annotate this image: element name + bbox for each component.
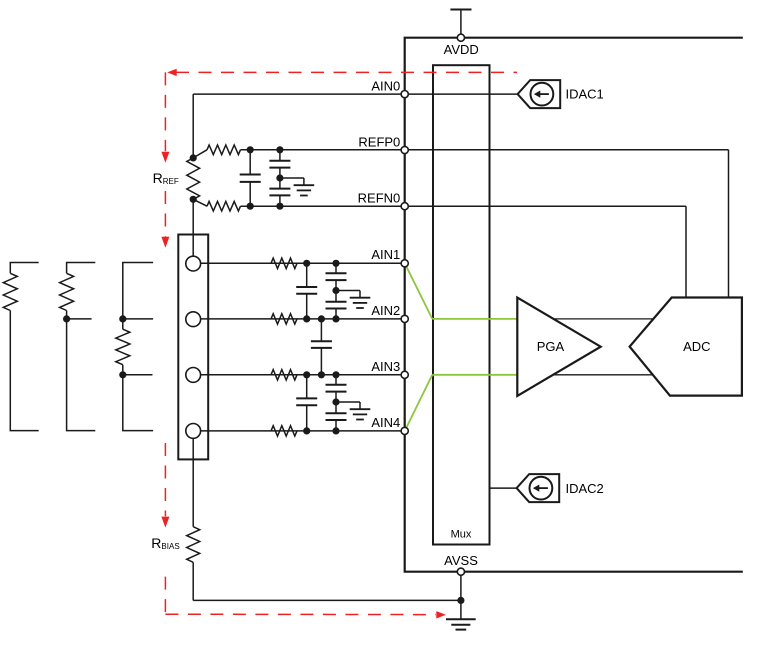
ground ref cm [280, 178, 314, 196]
svg-text:ADC: ADC [683, 339, 710, 354]
junction AIN3 mid [318, 371, 325, 378]
capacitor CCM_A3 [326, 375, 347, 392]
pin REFN0 [401, 203, 408, 210]
junction AVSS [457, 597, 464, 604]
current path bottom [165, 611, 445, 618]
capacitor CCM_A1 [326, 263, 347, 280]
label IDAC2 [566, 481, 604, 496]
label ADC [683, 339, 710, 354]
junction a12 cm mid [332, 287, 339, 294]
junction AIN2 diff [303, 315, 310, 322]
svg-text:PGA: PGA [537, 339, 565, 354]
junction 4-wire tap bottom [119, 371, 126, 378]
svg-text:AIN0: AIN0 [371, 79, 400, 94]
terminal 4 [186, 424, 201, 439]
svg-text:AIN1: AIN1 [371, 247, 400, 262]
junction RREF top [190, 154, 197, 161]
junction AIN2 cm [332, 315, 339, 322]
label REFN0 [358, 190, 401, 205]
resistor AIN1 filter [271, 258, 297, 268]
sensor RTD 4-wire [116, 263, 153, 431]
label IDAC1 [566, 87, 604, 102]
pin AIN0 [401, 91, 408, 98]
current source IDAC2 [517, 474, 560, 502]
label Mux [451, 528, 472, 540]
junction AIN2 mid [318, 315, 325, 322]
pin AVDD [457, 34, 464, 41]
label AVDD [444, 42, 479, 57]
wire AIN3 net [201, 374, 405, 376]
resistor AIN2 filter [271, 314, 297, 324]
mux selected path 2 [406, 375, 518, 430]
wire REFP0 net [241, 149, 729, 151]
wire AIN2 net [201, 318, 405, 320]
junction AIN1 cm [332, 260, 339, 267]
sensor RTD 2-wire [3, 263, 38, 431]
junction AIN3 cm [332, 371, 339, 378]
pin AIN4 [401, 427, 408, 434]
wire AIN4 net [201, 430, 405, 432]
wire AIN0 net [193, 93, 517, 95]
label AIN1 [371, 247, 400, 262]
junction ref cm mid [276, 174, 283, 181]
current path left 4 [164, 577, 166, 615]
wire RREF top diagonal [193, 150, 207, 158]
resistor REFN0 filter [207, 201, 241, 211]
pin AIN3 [401, 371, 408, 378]
resistor RREF [187, 158, 200, 199]
label RREF [153, 170, 179, 186]
wire IDAC2 [490, 487, 517, 489]
wire REFN0 net [241, 205, 687, 207]
svg-text:REFP0: REFP0 [358, 134, 400, 149]
capacitor CCM_REFP [269, 150, 290, 168]
current path left 1 [161, 72, 169, 162]
junction AIN1 diff [303, 260, 310, 267]
wire AVDD stem [460, 10, 462, 35]
svg-text:AIN4: AIN4 [371, 415, 400, 430]
wire AIN1 net [201, 262, 405, 264]
svg-text:AVDD: AVDD [444, 42, 479, 57]
current path left 2 [161, 191, 169, 248]
junction REFN0 cm cap [276, 203, 283, 210]
capacitor CCM_REFN [269, 189, 290, 207]
capacitor CDIF_A12 [296, 263, 317, 319]
capacitor CDIF_REF [240, 150, 261, 206]
capacitor CCM_A4 [326, 413, 347, 431]
AVDD supply bar [450, 9, 471, 11]
ground a34 cm [336, 402, 370, 420]
svg-text:AIN2: AIN2 [371, 303, 400, 318]
svg-text:RREF: RREF [153, 170, 179, 186]
svg-text:REFN0: REFN0 [358, 190, 401, 205]
ADC chip outline U1 [405, 38, 743, 572]
pin REFP0 [401, 146, 408, 153]
label RBIAS [151, 535, 179, 551]
label PGA [537, 339, 565, 354]
pin AVSS [457, 568, 464, 575]
wire a34 cm mid [335, 392, 337, 414]
wire REFN0 to ADC [685, 206, 687, 297]
resistor AIN3 filter [271, 370, 297, 380]
terminal 1 [186, 256, 201, 271]
multiplexer block Mux [433, 65, 490, 544]
current path top [167, 69, 517, 76]
svg-text:AVSS: AVSS [444, 553, 478, 568]
resistor RBIAS [187, 527, 200, 563]
mux selected path 1 [406, 265, 518, 319]
wire REFP0 to ADC [728, 150, 730, 298]
wire PGA to ADC top [552, 318, 654, 320]
junction AIN4 cm [332, 427, 339, 434]
wire RBIAS to ground [193, 562, 461, 600]
pin AIN1 [401, 260, 408, 267]
svg-text:IDAC1: IDAC1 [566, 87, 604, 102]
junction RREF bottom [190, 196, 197, 203]
capacitor CCM_A2 [326, 302, 347, 319]
label AIN0 [371, 79, 400, 94]
junction a34 cm mid [332, 398, 339, 405]
label AIN2 [371, 303, 400, 318]
wire RREF to connector [192, 199, 194, 256]
resistor AIN4 filter [271, 426, 297, 436]
ground AVSS [446, 619, 476, 629]
terminal 3 [186, 368, 201, 383]
junction REFP0 cap [247, 146, 254, 153]
current path left 3 [161, 443, 169, 528]
wire RREF bottom diagonal [193, 199, 207, 206]
label AIN4 [371, 415, 400, 430]
wire PGA to ADC bottom [552, 374, 654, 376]
svg-text:Mux: Mux [451, 528, 472, 540]
svg-text:AIN3: AIN3 [371, 359, 400, 374]
junction 3-wire tap [63, 315, 70, 322]
junction REFN0 cap [247, 203, 254, 210]
converter ADC [630, 298, 742, 396]
junction AIN3 diff [303, 371, 310, 378]
capacitor CDIF_A34 [296, 375, 317, 431]
current source IDAC1 [518, 80, 561, 108]
terminal 2 [186, 312, 201, 327]
junction AIN4 diff [303, 427, 310, 434]
wire AVSS down [460, 572, 462, 620]
svg-text:IDAC2: IDAC2 [566, 481, 604, 496]
resistor REFP0 filter [207, 145, 241, 155]
wire connector to RBIAS [192, 438, 194, 526]
pin AIN2 [401, 315, 408, 322]
amplifier PGA [517, 298, 600, 396]
wire a12 cm mid [335, 280, 337, 302]
label REFP0 [358, 134, 400, 149]
wire AIN0 to RREF [192, 94, 194, 158]
terminal block J1 [178, 235, 208, 460]
sensor RTD 3-wire [60, 263, 96, 431]
ground a12 cm [336, 291, 370, 309]
junction 4-wire tap top [119, 315, 126, 322]
label AIN3 [371, 359, 400, 374]
wire ref cm mid [279, 168, 281, 189]
junction REFP0 cm cap [276, 146, 283, 153]
label AVSS [444, 553, 478, 568]
capacitor CDIF_A23 [311, 319, 332, 375]
svg-text:RBIAS: RBIAS [151, 535, 179, 551]
